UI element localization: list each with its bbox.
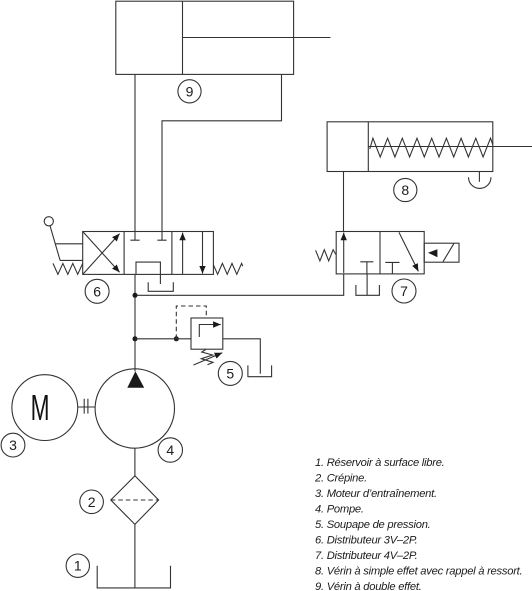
svg-text:2: 2 bbox=[88, 494, 96, 510]
svg-text:4: 4 bbox=[166, 442, 174, 458]
svg-text:9. Vérin à double effet.: 9. Vérin à double effet. bbox=[315, 581, 422, 591]
svg-text:5: 5 bbox=[226, 365, 234, 381]
svg-text:2. Crépine.: 2. Crépine. bbox=[314, 472, 367, 484]
svg-text:9: 9 bbox=[186, 83, 194, 99]
svg-text:4. Pompe.: 4. Pompe. bbox=[315, 503, 364, 515]
svg-text:7. Distributeur 4V–2P.: 7. Distributeur 4V–2P. bbox=[315, 550, 418, 562]
svg-text:6. Distributeur 3V–2P.: 6. Distributeur 3V–2P. bbox=[315, 534, 418, 546]
svg-text:8: 8 bbox=[401, 182, 409, 198]
svg-text:7: 7 bbox=[400, 283, 408, 299]
svg-text:3: 3 bbox=[9, 437, 17, 453]
svg-text:8. Vérin à simple effet avec r: 8. Vérin à simple effet avec rappel à re… bbox=[315, 565, 522, 577]
svg-text:M: M bbox=[31, 387, 50, 428]
svg-text:1. Réservoir à surface libre.: 1. Réservoir à surface libre. bbox=[315, 457, 445, 469]
svg-text:1: 1 bbox=[74, 558, 82, 574]
svg-text:6: 6 bbox=[93, 283, 101, 299]
svg-text:3. Moteur d’entraînement.: 3. Moteur d’entraînement. bbox=[315, 488, 437, 500]
svg-text:5. Soupape de pression.: 5. Soupape de pression. bbox=[315, 519, 431, 531]
